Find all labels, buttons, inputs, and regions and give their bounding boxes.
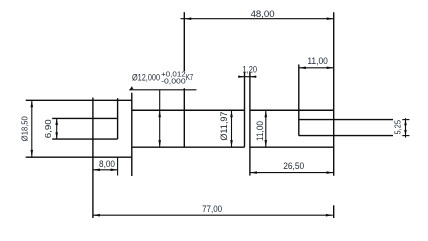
svg-text:6,90: 6,90: [43, 119, 53, 138]
groove right edge with extension below: [249, 73, 251, 176]
dimension line 1,20: [238, 76, 257, 78]
shaft top edge right of groove: [250, 109, 334, 111]
dimension line 5,25: [405, 118, 407, 137]
flange right face step: [131, 93, 133, 176]
svg-text:11,00: 11,00: [307, 56, 328, 66]
dimension line 77,00: [93, 214, 333, 216]
dimension line D11,97: [231, 110, 233, 147]
svg-text:1,20: 1,20: [243, 64, 258, 74]
extension stub top at 5,25: [402, 119, 409, 121]
svg-text:-0,000: -0,000: [161, 77, 186, 86]
svg-text:48,00: 48,00: [251, 9, 275, 19]
dimension line 11,00 top: [299, 67, 334, 69]
svg-text:K7: K7: [186, 72, 194, 82]
svg-text:26,50: 26,50: [283, 161, 304, 171]
svg-text:Ø11,97: Ø11,97: [219, 112, 229, 141]
slot top line: [52, 117, 117, 119]
shaft bottom edge right of groove: [250, 146, 334, 148]
dimension line D12,000: [159, 90, 161, 147]
extension below for 8,00: [117, 157, 119, 175]
feature line at 48mm start (through shaft): [183, 88, 185, 147]
left flange top edge with extension: [26, 99, 132, 101]
dimension line 48,00: [181, 18, 335, 20]
svg-text:77,00: 77,00: [202, 204, 222, 214]
svg-text:Ø12,000: Ø12,000: [132, 73, 160, 83]
svg-text:5,25: 5,25: [394, 119, 403, 134]
groove left edge: [244, 73, 246, 148]
svg-text:Ø18,50: Ø18,50: [20, 116, 30, 141]
dimension line 26,50: [250, 172, 334, 174]
right extension stub for 77 dim: [333, 205, 335, 218]
dimension line 11,00 vertical: [265, 110, 267, 147]
dimension line 8,00: [93, 169, 118, 171]
left flange bottom edge with extension: [26, 156, 132, 158]
bore bottom line with extension: [299, 135, 393, 137]
slot bottom line: [52, 138, 117, 140]
shaft bottom edge left of groove: [132, 146, 245, 148]
right step feature line: [298, 65, 300, 136]
feature line at 48mm start (upper extension): [183, 12, 185, 71]
leader underline of D12,000 text: [129, 89, 196, 91]
right end face: [333, 12, 335, 176]
shaft top edge left of groove: [132, 109, 245, 111]
left face of flange: [92, 98, 94, 218]
slot end face: [117, 98, 119, 139]
dimension line 6,90: [56, 118, 58, 139]
svg-text:8,00: 8,00: [99, 159, 115, 169]
dimension line D18,50: [31, 100, 33, 157]
bore top line with extension: [299, 119, 393, 121]
svg-text:11,00: 11,00: [255, 121, 265, 141]
extension stub bottom at 5,25: [402, 135, 409, 137]
